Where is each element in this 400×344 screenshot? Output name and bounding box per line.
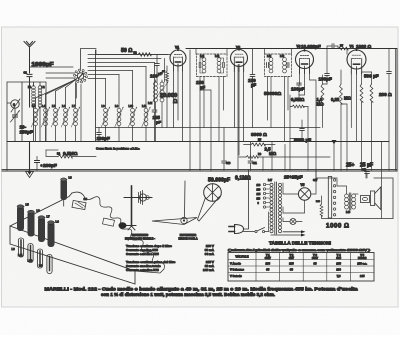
wire antenna branch to band switch xyxy=(30,66,74,68)
bus wire y141 xyxy=(7,141,389,143)
wire V2 legs xyxy=(234,65,243,156)
wire V3 V4 legs xyxy=(290,49,372,171)
rotary band switch S1 xyxy=(74,49,96,142)
wire centre verticals xyxy=(196,49,292,171)
svg-text:MARELLI - Mod. 122 - Onde medi: MARELLI - Mod. 122 - Onde medie e bande … xyxy=(45,287,359,292)
wire L1/L2 top loop xyxy=(22,82,46,142)
transformer primary taps xyxy=(257,183,270,208)
svg-text:6V5: 6V5 xyxy=(336,256,341,260)
wire switch to L2 stubs xyxy=(46,73,75,78)
svg-text:95: 95 xyxy=(266,268,269,272)
svg-text:100: 100 xyxy=(150,74,158,79)
svg-text:( misura fra i piedini delle v: ( misura fra i piedini delle valvole e m… xyxy=(228,248,370,252)
capacitor C13 180pF xyxy=(319,49,332,85)
capacitor C11 xyxy=(248,142,257,171)
label movimento indice scala xyxy=(178,233,197,241)
svg-text:145 mA: 145 mA xyxy=(203,268,215,272)
svg-text:95: 95 xyxy=(290,268,293,272)
bus wire y170 main earth rail xyxy=(2,168,397,170)
wire V1 legs xyxy=(174,50,190,170)
resistor R2 50 ohm xyxy=(96,48,170,56)
svg-text:V Catodo: V Catodo xyxy=(230,274,242,278)
svg-text:L18: L18 xyxy=(346,211,351,214)
capacitor C14 280pF xyxy=(35,157,57,171)
svg-text:95: 95 xyxy=(314,261,317,265)
coil can L5 pictorial xyxy=(17,203,29,232)
resistor R10 0.25 Mohm xyxy=(331,70,351,142)
svg-text:V1: V1 xyxy=(175,46,179,50)
svg-text:con 1 % di distorsione 1 watt,: con 1 % di distorsione 1 watt, potenza m… xyxy=(101,292,275,297)
coil L8 with trimmer xyxy=(101,79,110,142)
svg-text:L13: L13 xyxy=(200,55,205,58)
coil L5 with trimmer xyxy=(51,79,76,141)
wire IF1 legs xyxy=(200,77,224,142)
electrolytic C19 25+25 uF xyxy=(346,163,373,179)
speaker magnet pictorial xyxy=(198,184,222,221)
svg-text:1000 Ω: 1000 Ω xyxy=(326,223,349,230)
svg-text:L10: L10 xyxy=(129,104,134,108)
wire right edge rails xyxy=(334,49,396,219)
svg-text:50000Ω: 50000Ω xyxy=(264,91,281,97)
mains switch S2 xyxy=(255,212,269,233)
svg-text:280pF: 280pF xyxy=(43,163,57,169)
svg-text:245: 245 xyxy=(360,274,365,278)
coil can L6 pictorial xyxy=(28,209,41,237)
svg-text:pF: pF xyxy=(251,83,257,88)
svg-text:0,25: 0,25 xyxy=(331,97,340,102)
variable capacitor C2 (tuning, 6) xyxy=(11,99,20,114)
svg-text:pF: pF xyxy=(156,120,161,125)
svg-text:pF: pF xyxy=(200,85,206,90)
svg-text:50.000pF: 50.000pF xyxy=(208,178,230,184)
trimmer cans L8 L11 L10 L9 pictorial xyxy=(12,238,53,274)
voltage/current list xyxy=(126,244,215,272)
capacitor C6 100pF xyxy=(97,128,110,142)
svg-text:TABELLA DELLE TENSIONI: TABELLA DELLE TENSIONI xyxy=(269,241,331,246)
svg-text:L17: L17 xyxy=(268,179,273,182)
resistor R11 200 ohm xyxy=(370,72,392,170)
capacitor C1 1000pF xyxy=(24,62,54,107)
coil L10 with trimmer xyxy=(128,71,137,142)
capacitor C12 10.000pF xyxy=(297,44,339,49)
svg-text:7,3: 7,3 xyxy=(337,274,341,278)
svg-text:6TA7: 6TA7 xyxy=(312,256,319,260)
svg-text:MΩ: MΩ xyxy=(344,96,351,101)
wire left rail xyxy=(7,82,22,170)
coil L6 with trimmer xyxy=(61,79,76,141)
svg-text:180pF: 180pF xyxy=(291,87,304,92)
svg-text:25 μF: 25 μF xyxy=(360,163,373,169)
chassis pictorial outline xyxy=(10,192,164,284)
svg-text:L8: L8 xyxy=(12,247,16,251)
resistor R12 xyxy=(360,72,363,142)
capacitor C7 100pF xyxy=(150,55,166,83)
electrolytic C20 25+25uF xyxy=(284,175,318,183)
capacitor C5 185pF bank xyxy=(152,66,161,142)
svg-text:6M7: 6M7 xyxy=(289,256,295,260)
coil L3 with trimmer xyxy=(31,79,76,141)
svg-text:C10: C10 xyxy=(226,162,231,165)
svg-text:L14: L14 xyxy=(215,55,220,58)
wire IF2 legs xyxy=(268,77,289,142)
field coil housing xyxy=(361,196,370,203)
antenna xyxy=(24,42,35,63)
speaker terminal strip xyxy=(328,177,336,219)
label movimento equipaggio mobile xyxy=(125,233,155,241)
svg-text:V5: V5 xyxy=(301,183,305,187)
svg-text:L3: L3 xyxy=(69,176,73,180)
capacitor C9 150pF xyxy=(248,49,257,128)
svg-text:L9: L9 xyxy=(39,264,43,268)
wire middle verticals to rail xyxy=(200,65,285,170)
tube V1 triode-hexode xyxy=(170,46,186,72)
capacitor C8 150pF xyxy=(196,80,206,90)
resistor R13 xyxy=(316,196,323,219)
capacitor C15 180pF xyxy=(291,83,304,95)
tube V3 detector xyxy=(296,49,314,73)
resistor R6 2.5 Mohm xyxy=(239,147,330,159)
svg-text:V3: V3 xyxy=(297,45,301,49)
svg-text:180pF: 180pF xyxy=(319,77,332,82)
IF transformer T-IF2 (L15 L16) xyxy=(265,54,292,77)
svg-text:50 Ω: 50 Ω xyxy=(121,48,132,54)
dial drive mechanism xyxy=(119,186,153,230)
text 50.000pF 0.1Mohm xyxy=(208,176,251,184)
wire nest drops xyxy=(155,59,165,83)
svg-text:L11: L11 xyxy=(18,253,23,257)
capacitor C3 pictorial xyxy=(72,197,87,210)
oscillator coil L12 xyxy=(148,80,168,142)
svg-text:0,5MΩ: 0,5MΩ xyxy=(63,151,78,157)
svg-text:Come illustr. in posizione «O.: Come illustr. in posizione «O.M.» xyxy=(96,147,140,151)
coil L2 xyxy=(38,85,45,107)
svg-text:MOVIMENTO: MOVIMENTO xyxy=(132,233,149,237)
power transformer T1 xyxy=(268,179,282,234)
table TABELLA DELLE TENSIONI xyxy=(228,241,374,282)
resistor R8 0.5 Mohm xyxy=(290,95,308,108)
svg-text:L4: L4 xyxy=(56,220,60,224)
resistor R7 on bus xyxy=(338,45,348,50)
coil can L4 pictorial xyxy=(48,220,60,248)
svg-text:250 c.a.: 250 c.a. xyxy=(357,261,367,265)
coil can L7 pictorial xyxy=(38,215,50,243)
top bus wire y50 xyxy=(186,49,397,171)
svg-text:L5: L5 xyxy=(26,203,30,207)
svg-text:L11: L11 xyxy=(142,104,147,108)
svg-text:L15: L15 xyxy=(267,55,272,58)
svg-text:0,5MΩ: 0,5MΩ xyxy=(291,97,305,102)
svg-text:V2: V2 xyxy=(236,46,240,50)
coil L9 with trimmer xyxy=(115,75,124,142)
capacitor C10 xyxy=(222,128,231,171)
svg-text:C17: C17 xyxy=(313,179,318,182)
wire output frame xyxy=(316,170,393,219)
svg-text:150pF: 150pF xyxy=(20,130,33,135)
svg-text:L16: L16 xyxy=(280,55,285,58)
tube V4 output 1000 ohm grid xyxy=(347,44,371,74)
resistor R5 8000 ohm xyxy=(244,132,275,146)
svg-text:L10: L10 xyxy=(28,259,33,263)
coil L4 with trimmer xyxy=(41,79,76,141)
svg-text:INDICE SCALA: INDICE SCALA xyxy=(178,237,197,241)
capacitor C18 5000pF xyxy=(294,120,311,143)
svg-text:5Y3GB: 5Y3GB xyxy=(358,256,367,260)
svg-text:8000 Ω: 8000 Ω xyxy=(251,132,267,138)
resistor R4b 50000 ohm xyxy=(264,91,281,97)
dial pointer mechanism xyxy=(152,181,197,225)
coil L7 with trimmer xyxy=(71,79,80,141)
svg-text:C3: C3 xyxy=(84,197,88,201)
power plug xyxy=(229,170,255,234)
wire band-switch bus nest xyxy=(88,50,168,142)
svg-text:25+25μF: 25+25μF xyxy=(284,175,303,180)
svg-text:185: 185 xyxy=(266,261,271,265)
resistor R1 0.5 Mohm xyxy=(46,150,96,158)
svg-text:205: 205 xyxy=(336,261,341,265)
svg-text:V4: V4 xyxy=(350,45,354,49)
wire y138 xyxy=(290,139,302,142)
output transformer L18 xyxy=(337,179,358,214)
resistor R9 1.0 Mohm xyxy=(317,75,324,128)
trimmer capacitor C3 10-150pF xyxy=(11,111,20,142)
tube V2 IF amp xyxy=(231,46,248,72)
svg-text:L6: L6 xyxy=(37,209,41,213)
svg-text:L7: L7 xyxy=(47,215,51,219)
svg-text:190: 190 xyxy=(336,268,341,272)
loudspeaker xyxy=(371,187,381,210)
heater wires with arrows xyxy=(271,230,306,236)
coil L1 xyxy=(28,84,35,107)
resistor R3 20.000 ohm xyxy=(160,66,177,128)
svg-text:200 Ω: 200 Ω xyxy=(379,92,392,97)
coil L11 with trimmer xyxy=(142,67,151,142)
svg-text:185: 185 xyxy=(289,261,294,265)
svg-text:V Anodo: V Anodo xyxy=(230,261,241,265)
svg-text:MΩ: MΩ xyxy=(269,151,277,156)
electrolytic L3 pictorial xyxy=(61,176,73,207)
tube V5 rectifier xyxy=(283,170,316,213)
svg-text:L12: L12 xyxy=(148,102,153,105)
svg-text:V Schermo: V Schermo xyxy=(230,268,244,272)
svg-text:MOVIMENTO: MOVIMENTO xyxy=(180,233,197,237)
svg-text:100pF: 100pF xyxy=(97,136,110,141)
svg-text:VALVOLE: VALVOLE xyxy=(235,255,248,259)
svg-text:C11: C11 xyxy=(253,162,258,165)
svg-text:C1: C1 xyxy=(24,71,28,75)
pilot lamp xyxy=(283,218,302,225)
svg-text:6TA7: 6TA7 xyxy=(265,256,272,260)
capacitor C16 500pF xyxy=(364,49,391,171)
svg-text:1000 Ω: 1000 Ω xyxy=(356,44,371,49)
svg-text:34 mA: 34 mA xyxy=(205,252,215,256)
bus wire y127 xyxy=(96,127,320,129)
svg-text:10.000pF: 10.000pF xyxy=(301,44,321,49)
IF transformer T-IF1 (L13 L14) xyxy=(197,54,228,77)
ground xyxy=(26,142,34,178)
